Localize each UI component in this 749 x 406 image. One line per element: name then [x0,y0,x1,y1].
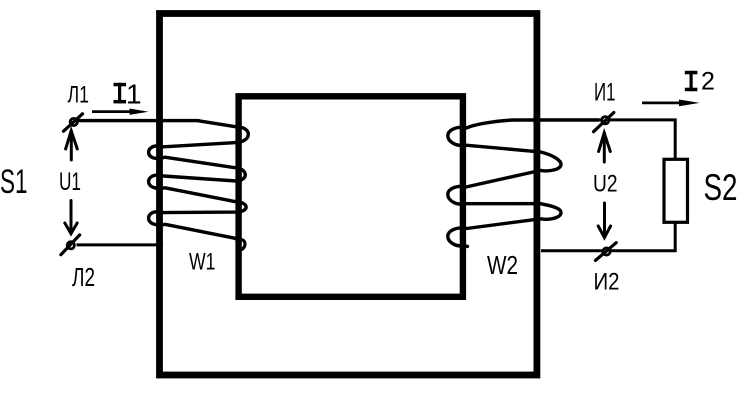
svg-text:U1: U1 [59,168,81,196]
svg-text:S2: S2 [704,166,738,208]
svg-text:Л1: Л1 [68,82,90,109]
svg-text:W1: W1 [189,249,216,276]
svg-text:S1: S1 [0,163,28,201]
svg-text:1: 1 [126,78,142,109]
svg-text:И1: И1 [594,79,616,107]
svg-text:2: 2 [701,68,715,96]
svg-text:Л2: Л2 [72,264,95,292]
svg-text:И2: И2 [594,269,620,296]
svg-text:U2: U2 [593,171,618,198]
svg-text:W2: W2 [487,252,518,280]
